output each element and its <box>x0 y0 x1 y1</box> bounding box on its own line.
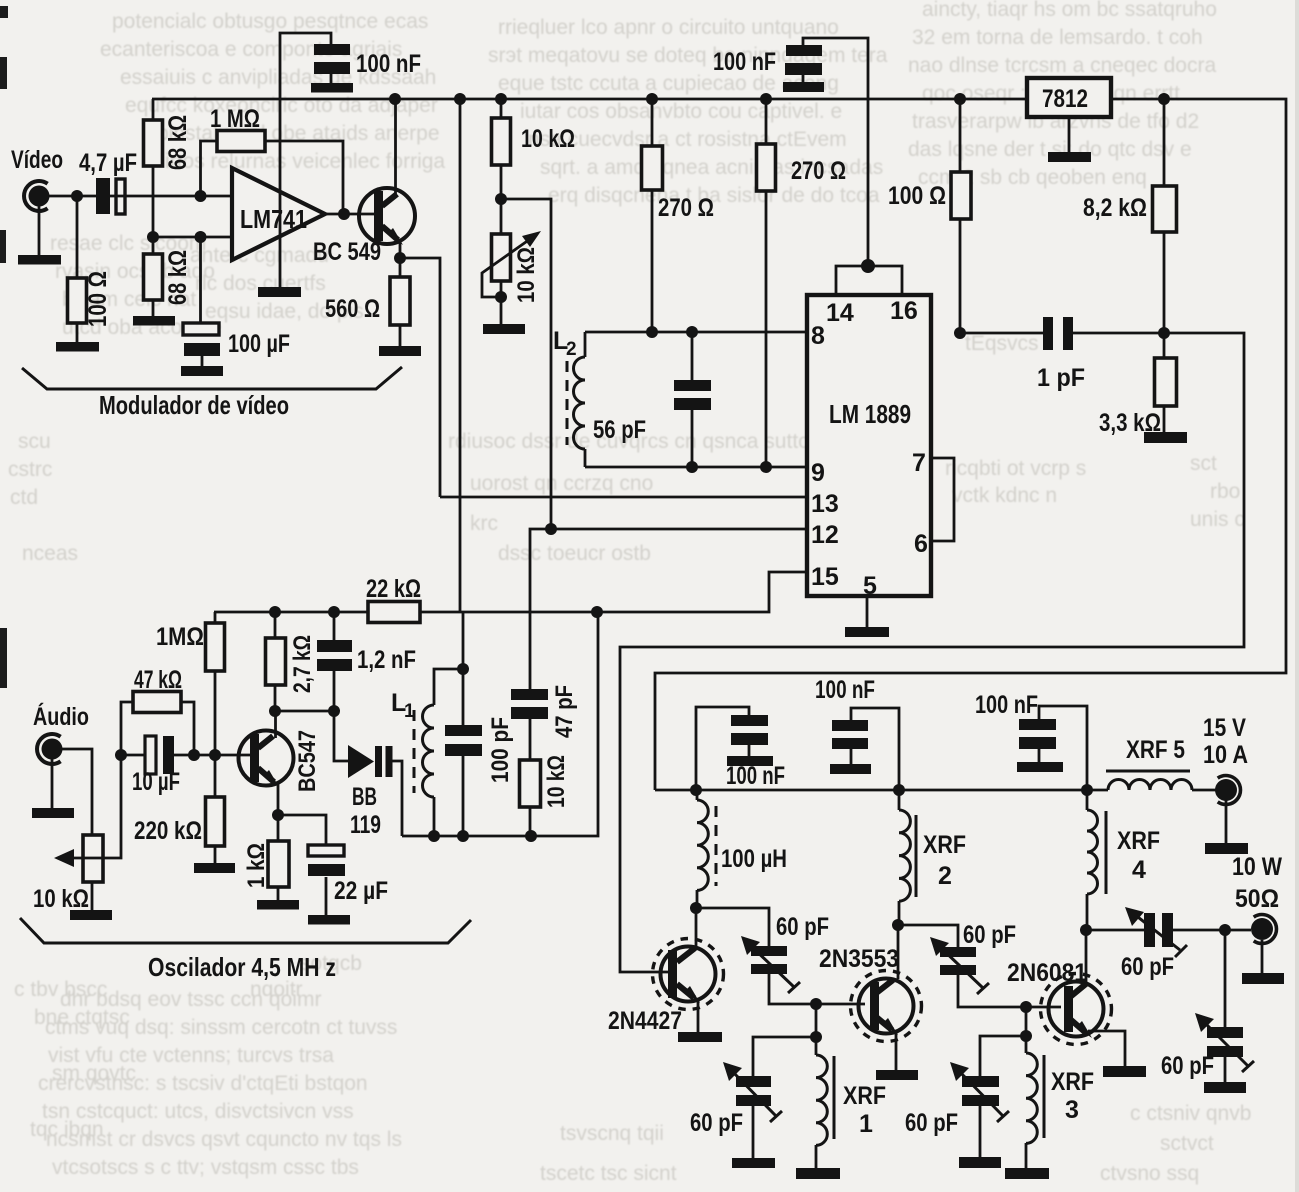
svg-text:potencialc obtusgo pesqtnce ec: potencialc obtusgo pesqtnce ecas <box>112 10 428 33</box>
node pin12 branch <box>545 523 557 535</box>
svg-text:BC547: BC547 <box>294 730 321 792</box>
svg-text:100 Ω: 100 Ω <box>888 182 946 210</box>
capacitor 100pF <box>445 669 514 836</box>
svg-text:10 kΩ: 10 kΩ <box>33 885 89 913</box>
wire XRF4 node to 2N6081 collector <box>1085 930 1088 982</box>
node: rail junction to oscillator feed <box>454 93 466 105</box>
svg-text:1: 1 <box>404 701 415 722</box>
node collector junction <box>269 705 281 717</box>
wire 15V connector to ground <box>1225 800 1228 843</box>
resistor 1k <box>243 815 289 900</box>
svg-text:60 pF: 60 pF <box>776 913 829 941</box>
svg-text:XRF 5: XRF 5 <box>1126 736 1185 764</box>
ground under pot <box>70 910 112 920</box>
ground under XRF3 <box>1005 1168 1049 1179</box>
svg-text:tEqsvcs: tEqsvcs <box>965 332 1039 355</box>
ground plate 100nF stage2 <box>830 764 871 774</box>
connector 15V supply <box>1203 714 1248 805</box>
svg-text:270 Ω: 270 Ω <box>791 157 846 185</box>
wire emitter to pin13 line <box>400 258 440 497</box>
svg-text:15: 15 <box>811 563 839 591</box>
inductor XRF3 <box>1026 1036 1094 1168</box>
svg-text:unis c: unis c <box>1190 508 1245 531</box>
node 10k / trimmer junction <box>495 193 507 205</box>
svg-text:100 Ω: 100 Ω <box>84 271 112 327</box>
resistor 270R no.2 <box>757 99 847 466</box>
wire collector node to trimmer <box>696 908 769 946</box>
transistor Q3 2N4427 <box>608 908 724 1035</box>
node rail at pin15 feed <box>591 606 603 618</box>
svg-text:irtos relurnas veicenlec forri: irtos relurnas veicenlec forriga <box>165 150 445 173</box>
svg-text:srэt meqatovu se doteq be ninn: srэt meqatovu se doteq be ninndaqem tera <box>488 44 888 67</box>
node bottom rail at L1 <box>428 830 440 842</box>
svg-text:1: 1 <box>859 1110 873 1138</box>
svg-text:crercvstnsc: s tscsiv d'ctqEti: crercvstnsc: s tscsiv d'ctqEti bstqon <box>38 1072 368 1095</box>
svg-text:9: 9 <box>811 459 825 487</box>
node tank top <box>457 663 469 675</box>
wire +12V to oscillator rail <box>459 99 462 612</box>
svg-text:100 µF: 100 µF <box>228 330 290 358</box>
svg-text:dssc toeucr ostb: dssc toeucr ostb <box>498 542 651 565</box>
svg-text:2: 2 <box>938 862 952 890</box>
capacitor 100uF <box>183 237 290 366</box>
ground at output connector <box>1242 973 1284 984</box>
svg-text:vctk kdnc n: vctk kdnc n <box>952 484 1057 507</box>
ground at 15V connector <box>1205 843 1248 854</box>
wire pin13 line <box>440 496 807 499</box>
svg-text:tscetc tsc sicnt: tscetc tsc sicnt <box>540 1162 677 1185</box>
wire pin5 to ground <box>866 596 869 627</box>
node 2N4427 collector <box>690 902 702 914</box>
svg-text:2N6081: 2N6081 <box>1007 959 1087 987</box>
svg-text:ctd: ctd <box>10 486 38 509</box>
svg-text:2: 2 <box>566 339 577 360</box>
wire collector to 2N3553 <box>897 925 900 979</box>
node base line at 1M/220k <box>209 749 221 761</box>
svg-text:LM 1889: LM 1889 <box>829 399 911 429</box>
node base line XRF1 branch <box>810 998 822 1010</box>
ground under trimmer no.4 <box>959 1157 1001 1168</box>
node 2N3553 collector <box>892 919 904 931</box>
capacitor 1.2nF <box>317 612 416 711</box>
svg-text:68 kΩ: 68 kΩ <box>164 115 192 170</box>
svg-text:XRF: XRF <box>843 1082 886 1110</box>
regulator 7812 <box>1027 78 1111 152</box>
op-amp U1 LM741 <box>232 168 325 260</box>
ground under XRF1 <box>796 1168 840 1179</box>
resistor 47k <box>121 666 194 755</box>
node rail at XRF2 <box>893 784 905 796</box>
wire base line <box>194 754 251 757</box>
node rail at 2.7k <box>269 606 281 618</box>
svg-text:vist vfu cte vctenns; turcvs t: vist vfu cte vctenns; turcvs trsa <box>48 1044 334 1067</box>
svg-text:BB: BB <box>352 783 377 811</box>
edge marks <box>0 6 8 688</box>
ground under 22uF <box>308 915 350 925</box>
svg-text:47 kΩ: 47 kΩ <box>134 666 182 694</box>
svg-text:aincty, tiaqr hs om bc ssatqru: aincty, tiaqr hs om bc ssatqruho <box>922 0 1217 21</box>
wire branch down <box>1025 1007 1028 1036</box>
capacitor 100nF (op-amp supply) <box>280 33 421 99</box>
svg-text:4: 4 <box>1132 856 1146 884</box>
svg-text:rrieqluer lco apnr o circuito: rrieqluer lco apnr o circuito untquano <box>498 16 839 39</box>
wire trimmer3 to 2N6081 base <box>958 975 1061 1007</box>
svg-text:10 kΩ: 10 kΩ <box>521 125 575 153</box>
node on video line at 100R <box>71 190 83 202</box>
resistor 68k no.2 <box>144 250 193 316</box>
node XRF1 / 60pF branch <box>810 1031 822 1043</box>
node rail at XRF4 <box>1081 784 1093 796</box>
node 10uF output <box>188 749 200 761</box>
resistor 2.7k <box>266 612 317 711</box>
node pin9 at 270R no.2 <box>760 461 772 473</box>
wire trimmer1 to 2N3553 base <box>769 974 865 1004</box>
node 8.2k / 3.3k / output tap <box>1158 327 1170 339</box>
resistor 10k (video level) <box>492 99 576 199</box>
svg-text:32 em torna de lemsardo. t coh: 32 em torna de lemsardo. t coh <box>912 26 1203 49</box>
svg-text:1MΩ: 1MΩ <box>156 623 204 651</box>
svg-text:220 kΩ: 220 kΩ <box>134 817 202 845</box>
svg-text:uorost qn ccrzq cno: uorost qn ccrzq cno <box>470 472 653 495</box>
svg-text:5: 5 <box>863 572 877 600</box>
oscillator top rail wire <box>214 611 598 614</box>
svg-text:sctvct: sctvct <box>1160 1132 1214 1155</box>
svg-text:XRF: XRF <box>1117 827 1160 855</box>
wire pin15 line <box>597 572 807 612</box>
svg-text:10 A: 10 A <box>1203 741 1248 769</box>
capacitor 100nF (RF stage 1) <box>696 707 785 790</box>
svg-text:10 W: 10 W <box>1232 853 1282 881</box>
svg-text:iutar cos obsanvbto cou captiv: iutar cos obsanvbto cou captivel. e <box>520 100 842 123</box>
svg-text:60 pF: 60 pF <box>690 1109 743 1137</box>
node XRF3 / 60pF branch <box>1020 1030 1032 1042</box>
capacitor 100nF (RF stage 2) <box>815 676 899 790</box>
svg-text:100 pF: 100 pF <box>487 717 514 783</box>
resistor 1M (feedback) <box>210 105 265 152</box>
ground under 220k <box>194 863 235 873</box>
svg-text:3: 3 <box>1065 1096 1079 1124</box>
inductor XRF5 <box>1106 736 1216 790</box>
wire pins 14-16 bracket <box>836 266 902 295</box>
svg-text:15 V: 15 V <box>1203 714 1246 742</box>
wire output to BC549 base <box>325 213 375 216</box>
svg-text:nao dlnse tcrcsm a cneqec docr: nao dlnse tcrcsm a cneqec docra <box>908 54 1216 77</box>
wire bias to op-amp non-inv input <box>153 236 232 239</box>
svg-text:4,7 µF: 4,7 µF <box>79 149 137 177</box>
svg-text:100 nF: 100 nF <box>726 762 785 790</box>
wire feedback to 1M <box>201 141 218 196</box>
node op-amp output <box>338 208 350 220</box>
capacitor 100nF (pins 14-16) <box>713 38 868 266</box>
trimmer capacitor 60pF no.2 <box>690 1062 782 1158</box>
ground under 560R <box>379 346 421 356</box>
diode D1 BB119 varicap <box>334 711 402 839</box>
node: rail junction at 8.2k <box>1158 93 1170 105</box>
svg-text:50Ω: 50Ω <box>1235 885 1279 913</box>
wire to trimmer 60pF no.4 <box>980 1036 1026 1076</box>
ground under 2N3553 <box>876 1070 918 1080</box>
node at pins14-16 bracket <box>861 259 875 273</box>
svg-text:Oscilador 4,5 MH z: Oscilador 4,5 MH z <box>148 952 336 982</box>
ground at pin5 <box>845 627 889 637</box>
ground under 3.3k <box>1144 432 1187 443</box>
ground under op-amp <box>258 287 301 297</box>
svg-text:ricqbti ot vcrp s: ricqbti ot vcrp s <box>945 457 1086 480</box>
inductor L1 <box>391 669 463 836</box>
node pin8 at 56pF <box>686 326 698 338</box>
svg-text:10 kΩ: 10 kΩ <box>543 755 570 808</box>
ground under 68k no.2 <box>133 316 175 326</box>
ground plate of 100nF <box>311 83 353 93</box>
svg-text:13: 13 <box>811 490 839 518</box>
capacitor 4.7uF <box>79 149 137 214</box>
wire audio jack to pot <box>62 749 92 835</box>
trimmer capacitor 60pF no.1 <box>741 913 829 993</box>
node rail at 100uH <box>690 784 702 796</box>
svg-text:100 nF: 100 nF <box>975 691 1038 719</box>
wire pin8 line <box>585 331 807 334</box>
node trimmer bottom <box>495 291 507 303</box>
wire tank top feed <box>462 612 465 669</box>
node: rail junction at 10k <box>495 93 507 105</box>
wire RF drive to 2N4427 base <box>620 333 1244 972</box>
wire collector node to trimmer no.3 <box>898 925 958 947</box>
svg-text:1,2 nF: 1,2 nF <box>357 646 416 674</box>
svg-text:22 kΩ: 22 kΩ <box>366 575 421 603</box>
svg-text:2N4427: 2N4427 <box>608 1007 682 1035</box>
svg-text:Vídeo: Vídeo <box>11 146 63 174</box>
transistor Q4 2N3553 <box>819 945 922 1070</box>
node: rail junction at 270R no.2 <box>760 93 772 105</box>
RF +15V rail wire <box>655 789 1108 792</box>
svg-text:119: 119 <box>350 811 381 839</box>
svg-text:1 pF: 1 pF <box>1037 364 1085 392</box>
svg-text:560 Ω: 560 Ω <box>325 295 380 323</box>
svg-text:Áudio: Áudio <box>33 702 89 731</box>
wire video input line <box>49 195 232 198</box>
node: rail junction at BC549 collector <box>389 93 401 105</box>
ground under 100R <box>56 342 99 352</box>
inductor XRF1 <box>816 1037 886 1168</box>
capacitor 47pF <box>511 529 578 760</box>
oscillator bottom rail wire <box>402 612 598 836</box>
inductor XRF2 <box>899 790 966 925</box>
resistor 10k (below 47pF) <box>520 755 571 836</box>
svg-text:c ctsniv qnvb: c ctsniv qnvb <box>1130 1102 1251 1125</box>
svg-text:1 kΩ: 1 kΩ <box>243 843 270 888</box>
potentiometer 10k <box>33 755 121 913</box>
resistor 220k <box>134 755 225 863</box>
svg-text:22 µF: 22 µF <box>334 877 388 905</box>
capacitor 56pF <box>593 332 711 467</box>
svg-text:LM741: LM741 <box>240 204 307 234</box>
node pot wiper / 47k junction <box>115 749 127 761</box>
resistor 100R (pin16 feed) <box>888 99 971 333</box>
ground under trimmer <box>483 324 525 334</box>
inductor L2 <box>553 327 585 467</box>
node: rail junction at 100R <box>954 93 966 105</box>
wire pin9 line <box>585 466 807 469</box>
svg-text:rbo: rbo <box>1210 480 1240 503</box>
svg-text:14: 14 <box>826 299 854 327</box>
wire video jack to ground <box>38 206 41 255</box>
svg-text:XRF: XRF <box>1051 1068 1094 1096</box>
connector RF output 50R <box>1232 853 1282 944</box>
transistor Q1 BC549 <box>313 99 415 266</box>
node bias divider junction <box>147 231 159 243</box>
transistor Q2 BC547 <box>239 711 322 815</box>
svg-text:100 nF: 100 nF <box>815 676 875 704</box>
svg-text:8: 8 <box>811 322 825 350</box>
ground plate 100nF stage1 <box>727 756 773 766</box>
svg-text:nceas: nceas <box>22 542 78 565</box>
resistor 270R no.1 <box>642 99 715 332</box>
node 100R bottom / 1pF <box>954 327 966 339</box>
capacitor 22uF <box>278 815 388 915</box>
svg-text:7812: 7812 <box>1042 85 1088 113</box>
wire video level to pin 12 <box>501 199 807 529</box>
svg-text:2,7 kΩ: 2,7 kΩ <box>289 635 316 693</box>
svg-text:2N3553: 2N3553 <box>819 945 899 973</box>
node pin9 at 56pF <box>686 461 698 473</box>
ground under 7812 <box>1048 152 1091 162</box>
node inverting input <box>195 190 207 202</box>
svg-text:nsa cuecvdsr a ct rosistna ctE: nsa cuecvdsr a ct rosistna ctEvem <box>528 128 847 151</box>
svg-text:XRF: XRF <box>923 831 966 859</box>
resistor 1M (bias) <box>156 612 225 755</box>
node bottom rail at 10k <box>525 830 537 842</box>
svg-text:47 pF: 47 pF <box>551 685 578 738</box>
ground under 2N4427 <box>678 1032 722 1042</box>
svg-text:56 pF: 56 pF <box>593 416 646 444</box>
svg-text:7: 7 <box>912 449 926 477</box>
svg-text:sct: sct <box>1190 452 1217 475</box>
svg-text:ctms vuq dsq: sinssm cercotn c: ctms vuq dsq: sinssm cercotn ct tuvss <box>45 1016 397 1039</box>
wire pins 7-6 bracket <box>931 458 954 541</box>
svg-text:10 kΩ: 10 kΩ <box>513 247 540 303</box>
ground at audio jack <box>32 808 74 818</box>
node rail at 1.2nF <box>328 606 340 618</box>
node base line XRF3 branch <box>1020 1001 1032 1013</box>
node BC547 emitter <box>272 809 284 821</box>
node output tank <box>1080 924 1092 936</box>
ground at video jack <box>18 255 61 265</box>
wire to trimmer 60pF no.2 <box>753 1037 816 1076</box>
svg-text:ctvsno ssq: ctvsno ssq <box>1100 1162 1199 1185</box>
node lower input / 100uF <box>195 231 207 243</box>
svg-text:12: 12 <box>811 521 839 549</box>
svg-text:krc: krc <box>470 512 498 535</box>
svg-text:60 pF: 60 pF <box>1121 953 1174 981</box>
svg-text:100 nF: 100 nF <box>356 50 421 78</box>
connector J1 Video input <box>11 146 63 211</box>
resistor 560R <box>325 258 410 346</box>
connector J2 Audio input <box>33 702 89 764</box>
resistor 68k no.1 <box>144 99 193 254</box>
svg-text:vtcsotscs s c ttv; vstqsm cssc: vtcsotscs s c ttv; vstqsm cssc tbs <box>52 1156 359 1179</box>
svg-text:270 Ω: 270 Ω <box>658 194 714 222</box>
wire output line <box>1086 929 1251 932</box>
svg-text:8,2 kΩ: 8,2 kΩ <box>1083 194 1147 222</box>
wire output node to trimmer no.6 <box>1224 930 1227 1027</box>
wire collector to 1.2nF node <box>275 710 334 713</box>
resistor 100R (video input) <box>68 196 113 342</box>
svg-text:60 pF: 60 pF <box>905 1109 958 1137</box>
svg-text:68 kΩ: 68 kΩ <box>164 250 192 305</box>
svg-text:1 MΩ: 1 MΩ <box>210 105 260 133</box>
capacitor 100nF (RF stage 3) <box>975 691 1087 790</box>
svg-text:100 nF: 100 nF <box>713 48 776 76</box>
resistor 8.2k <box>1083 99 1177 333</box>
inductor XRF4 <box>1087 790 1160 930</box>
node output junction <box>1219 924 1231 936</box>
wire audio jack to ground <box>51 759 54 808</box>
wire branch down <box>815 1004 818 1037</box>
node 1.2nF bottom junction <box>328 705 340 717</box>
svg-text:60 pF: 60 pF <box>1161 1052 1214 1080</box>
svg-text:16: 16 <box>890 297 918 325</box>
wire op-amp supply vertical <box>279 99 282 287</box>
inductor 100uH <box>697 790 787 908</box>
trimmer capacitor 60pF no.3 <box>930 921 1016 994</box>
capacitor 10uF <box>121 736 194 796</box>
svg-text:cstrc: cstrc <box>8 458 52 481</box>
ground under trimmer no.2 <box>732 1158 775 1168</box>
node: rail junction at 270R no.1 <box>646 93 658 105</box>
svg-text:tsn cstcquct: utcs, disvctsivc: tsn cstcquct: utcs, disvctsivcn vss <box>42 1100 354 1123</box>
wire 1M to op-amp output <box>265 141 343 214</box>
svg-text:6: 6 <box>914 530 928 558</box>
ground under trimmer no.6 <box>1204 1082 1246 1093</box>
IC U2 LM1889 <box>807 295 931 600</box>
wire output connector to ground <box>1261 940 1264 973</box>
trimmer capacitor 60pF no.4 <box>905 1062 1009 1157</box>
ground at 2N6081 emitter <box>1103 1066 1146 1077</box>
svg-text:scu: scu <box>18 430 51 453</box>
brace oscillator section <box>20 918 471 943</box>
svg-text:BC 549: BC 549 <box>313 238 381 266</box>
+12V top rail wire <box>152 99 1286 790</box>
svg-text:100 µH: 100 µH <box>721 845 787 873</box>
node bottom rail at 100pF <box>457 830 469 842</box>
trimmer capacitor 60pF no.5 (series output) <box>1121 907 1187 981</box>
ground plate of 100nF pins14-16 <box>783 82 824 92</box>
resistor 3.3k <box>1099 333 1177 437</box>
svg-text:ncsmst cr dsvcs qsvt cquncto n: ncsmst cr dsvcs qsvt cquncto nv tqs ls <box>46 1128 402 1151</box>
svg-text:tsvscnq tqii: tsvscnq tqii <box>560 1122 664 1145</box>
trimpot 10k <box>482 199 541 303</box>
svg-text:60 pF: 60 pF <box>963 921 1016 949</box>
capacitor 1pF <box>960 317 1164 392</box>
wire trimmer to ground <box>500 297 503 324</box>
svg-text:Modulador de vídeo: Modulador de vídeo <box>99 390 289 420</box>
node BC549 emitter <box>394 252 406 264</box>
transistor Q5 2N6081 <box>1007 959 1125 1066</box>
trimmer capacitor 60pF no.6 (output shunt) <box>1161 1013 1254 1082</box>
resistor 22k <box>366 575 421 623</box>
ground under 1k <box>257 900 299 910</box>
brace modulator section <box>22 367 402 389</box>
ground under 100uF <box>181 366 223 376</box>
svg-text:10 µF: 10 µF <box>132 768 180 796</box>
ground plate 100nF stage3 <box>1017 762 1063 772</box>
node pin8 at 270R no.1 <box>646 326 658 338</box>
